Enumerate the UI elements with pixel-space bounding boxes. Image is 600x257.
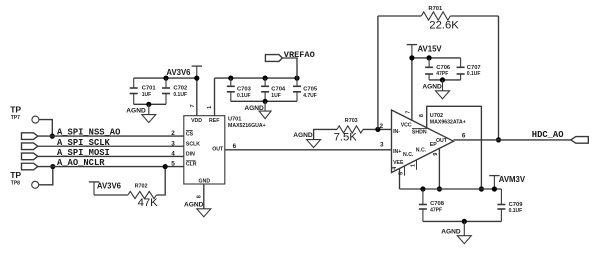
AV3V6 decoupling rail (134, 77, 197, 79)
input port flag A_SPI_MOSI (22, 153, 38, 160)
svg-text:VDD: VDD (191, 118, 202, 124)
svg-text:C705: C705 (303, 86, 318, 92)
power symbol AVM3V (489, 175, 499, 177)
wire net A_SPI_MOSI to U701 pin 4 (38, 155, 184, 157)
C708/C709 ground rail (423, 220, 502, 222)
resistor R703 (337, 126, 363, 133)
svg-text:C701: C701 (142, 85, 157, 91)
svg-text:N.C.: N.C. (416, 147, 427, 153)
capacitor C705 (296, 78, 298, 86)
ground AGND below C708/C709 (463, 221, 465, 235)
svg-text:A_SPI_MOSI: A_SPI_MOSI (57, 148, 110, 158)
U702 pin 9 (EP) down to rail (438, 148, 440, 189)
output port flag HDC_AO (571, 137, 589, 144)
svg-text:1UF: 1UF (142, 92, 151, 98)
svg-text:7.5K: 7.5K (334, 131, 358, 143)
junction feedback/output (496, 137, 501, 142)
svg-text:N.C.: N.C. (403, 152, 414, 158)
output port flag VREFAO (265, 55, 282, 62)
svg-text:AGND: AGND (441, 229, 461, 236)
wire VREFAO to reference rail (282, 58, 297, 78)
svg-text:0.1UF: 0.1UF (509, 208, 523, 214)
junction C704 tap (263, 76, 268, 81)
wire net A_SPI_SCLK to U701 pin 3 (38, 145, 184, 147)
svg-text:6: 6 (462, 133, 466, 140)
svg-text:MAX5216GUA+: MAX5216GUA+ (228, 123, 266, 129)
U702 pin 8 (SHDN) wire to VEE rail (427, 106, 482, 189)
svg-text:0.1UF: 0.1UF (237, 93, 251, 99)
junction R702/A_AO_NCLR (163, 164, 168, 169)
svg-text:AV3V6: AV3V6 (166, 68, 191, 77)
wire net A_AO_NCLR to U701 pin 5 (38, 166, 184, 168)
junction TP7/A_SPI_NSS_AO (50, 134, 55, 139)
svg-text:GND: GND (199, 178, 211, 184)
reference rail from U701 REF (215, 77, 298, 79)
power symbol AV3V6 (top) (192, 65, 202, 67)
wire net A_SPI_NSS_AO to U701 pin 2 (38, 135, 184, 137)
input port flag A_SPI_NSS_AO (22, 133, 38, 140)
power symbol AV15V (407, 44, 417, 46)
junction SHDN/VEE rail (479, 186, 484, 191)
junction AVM3V/VEE rail (492, 186, 497, 191)
svg-text:9: 9 (433, 153, 439, 156)
capacitor C707 (460, 58, 462, 67)
svg-text:VREFAO: VREFAO (284, 50, 315, 60)
svg-text:TP: TP (10, 105, 21, 115)
svg-text:CLR: CLR (186, 162, 197, 168)
capacitor C702 (165, 78, 167, 88)
svg-text:VCC: VCC (401, 123, 412, 129)
U702 pin 1 N.C. stub (416, 160, 418, 170)
svg-text:1UF: 1UF (271, 93, 280, 99)
svg-text:C706: C706 (436, 65, 451, 71)
svg-text:OUT: OUT (212, 146, 224, 152)
junction ground tap C706/C707 (440, 77, 445, 82)
junction IN- / feedback node (375, 127, 380, 132)
svg-text:DIN: DIN (186, 152, 195, 158)
svg-text:47PF: 47PF (430, 208, 442, 214)
svg-text:C707: C707 (467, 65, 481, 71)
resistor R701 (421, 12, 450, 20)
svg-text:REF: REF (209, 118, 219, 124)
AV15V decoupling rail (412, 57, 461, 59)
U702 pin 5 N.C. stub (404, 166, 406, 176)
svg-text:47PF: 47PF (436, 71, 448, 77)
svg-text:C702: C702 (173, 85, 187, 91)
svg-text:8: 8 (419, 114, 425, 117)
svg-text:AGND: AGND (126, 107, 146, 114)
ground AGND below C701/C702 (148, 104, 150, 114)
svg-text:MAX9632ATA+: MAX9632ATA+ (430, 120, 466, 126)
capacitor C708 (422, 189, 424, 205)
svg-text:R703: R703 (345, 118, 358, 124)
svg-text:AGND: AGND (184, 202, 204, 209)
junction C708 tap (420, 186, 425, 191)
svg-text:R702: R702 (135, 184, 148, 190)
svg-text:1: 1 (411, 164, 417, 167)
svg-text:0.1UF: 0.1UF (173, 92, 187, 98)
svg-text:U702: U702 (430, 113, 443, 119)
svg-text:HDC_AO: HDC_AO (532, 130, 564, 140)
svg-text:5: 5 (171, 161, 175, 168)
wire R703 to U702 IN- (363, 128, 392, 130)
input port flag A_SPI_SCLK (22, 143, 38, 150)
svg-text:C709: C709 (509, 202, 524, 208)
svg-text:7: 7 (405, 111, 411, 114)
svg-text:OUT: OUT (436, 138, 448, 144)
U701 pin 8 (GND) stub (203, 184, 205, 209)
feedback wire IN- up and over (377, 16, 379, 129)
resistor R702 (128, 191, 156, 198)
capacitor C709 (500, 189, 502, 205)
op-amp U702 MAX9632ATA+ triangle (392, 110, 454, 173)
svg-text:A_SPI_NSS_AO: A_SPI_NSS_AO (57, 128, 120, 138)
svg-text:1: 1 (207, 106, 213, 109)
wire R702 to A_AO_NCLR (156, 167, 165, 195)
svg-text:SCLK: SCLK (186, 142, 200, 148)
junction C706 tap (427, 55, 432, 60)
wire AGND to R703 (314, 129, 337, 139)
svg-text:2: 2 (171, 130, 175, 137)
svg-text:7: 7 (190, 104, 196, 107)
svg-text:C703: C703 (237, 86, 252, 92)
IC U701 MAX5216GUA+ body (184, 116, 225, 184)
capacitor C706 (428, 58, 430, 67)
svg-text:IN+: IN+ (393, 149, 401, 155)
junction C703 tap (228, 76, 233, 81)
junction ground tap (146, 102, 151, 107)
svg-text:0.1UF: 0.1UF (467, 71, 481, 77)
junction ground tap C708/C709 (462, 219, 467, 224)
svg-text:SHDN: SHDN (412, 129, 427, 135)
junction EP/VEE rail (437, 186, 442, 191)
C706/C707 ground rail (429, 79, 461, 81)
svg-text:EP: EP (430, 142, 437, 148)
capacitor C701 (133, 78, 135, 88)
ground AGND below C704 (264, 101, 266, 111)
svg-text:6: 6 (233, 143, 237, 150)
input port flag A_AO_NCLR (22, 163, 38, 170)
U701 pin 7 (VDD) wire up to AV3V6 rail (196, 78, 198, 116)
VEE rail below op-amp (400, 188, 502, 190)
junction C705/VREFAO tap (294, 76, 299, 81)
svg-text:TP8: TP8 (11, 180, 20, 186)
svg-text:A_AO_NCLR: A_AO_NCLR (57, 158, 105, 168)
svg-text:A_SPI_SCLK: A_SPI_SCLK (57, 138, 111, 148)
wire TP8 to net A_AO_NCLR (39, 167, 53, 185)
svg-text:4: 4 (171, 151, 175, 158)
U701 pin 1 (REF) wire up to reference rail (214, 78, 216, 116)
svg-text:R701: R701 (428, 6, 443, 12)
svg-text:C708: C708 (430, 201, 445, 207)
svg-text:AVM3V: AVM3V (499, 175, 526, 184)
svg-text:4.7UF: 4.7UF (303, 93, 317, 99)
svg-text:TP7: TP7 (11, 115, 20, 121)
svg-text:5: 5 (399, 172, 405, 175)
junction C702 tap (163, 76, 168, 81)
svg-text:3: 3 (380, 142, 384, 149)
junction ground tap C704 (263, 99, 268, 104)
U702 pin 4 (VEE) down to rail (399, 169, 401, 190)
power symbol AV3V6 (near R702) (89, 181, 99, 183)
svg-text:4: 4 (392, 167, 398, 170)
svg-text:C704: C704 (271, 86, 286, 92)
wire U702 OUT (pin 6) to HDC_AO (454, 139, 571, 141)
junction TP8/A_AO_NCLR (50, 164, 55, 169)
C701/C702 ground rail (134, 103, 166, 105)
svg-text:AV15V: AV15V (418, 45, 443, 54)
junction AV3V6/VDD (194, 76, 199, 81)
wire AV3V6 to R702 (94, 194, 128, 196)
svg-text:22.6K: 22.6K (429, 20, 459, 32)
svg-text:AGND: AGND (293, 132, 313, 139)
junction AV15V/VCC (409, 55, 414, 60)
ground AGND below C706/C707 (442, 80, 444, 91)
svg-text:2: 2 (380, 123, 384, 130)
wire TP7 to net A_SPI_NSS_AO (39, 120, 52, 137)
C703-C705 ground rail (231, 100, 297, 102)
svg-text:TP: TP (10, 170, 21, 180)
svg-text:U701: U701 (228, 117, 241, 123)
wire U701 OUT (pin 6) to U702 IN+ (pin 3) (225, 149, 392, 151)
feedback wire to output node (450, 15, 498, 17)
svg-text:VEE: VEE (393, 160, 404, 166)
svg-text:8: 8 (196, 195, 202, 198)
capacitor C704 (264, 78, 266, 86)
svg-text:AGND: AGND (422, 84, 442, 91)
U702 pin 7 (VCC) wire up to AV15V rail (411, 58, 413, 121)
svg-text:3: 3 (171, 140, 175, 147)
svg-text:AV3V6: AV3V6 (97, 182, 122, 191)
svg-text:IN-: IN- (393, 129, 400, 135)
svg-text:47K: 47K (138, 197, 159, 209)
capacitor C703 (230, 78, 232, 86)
svg-text:CS: CS (186, 132, 194, 138)
